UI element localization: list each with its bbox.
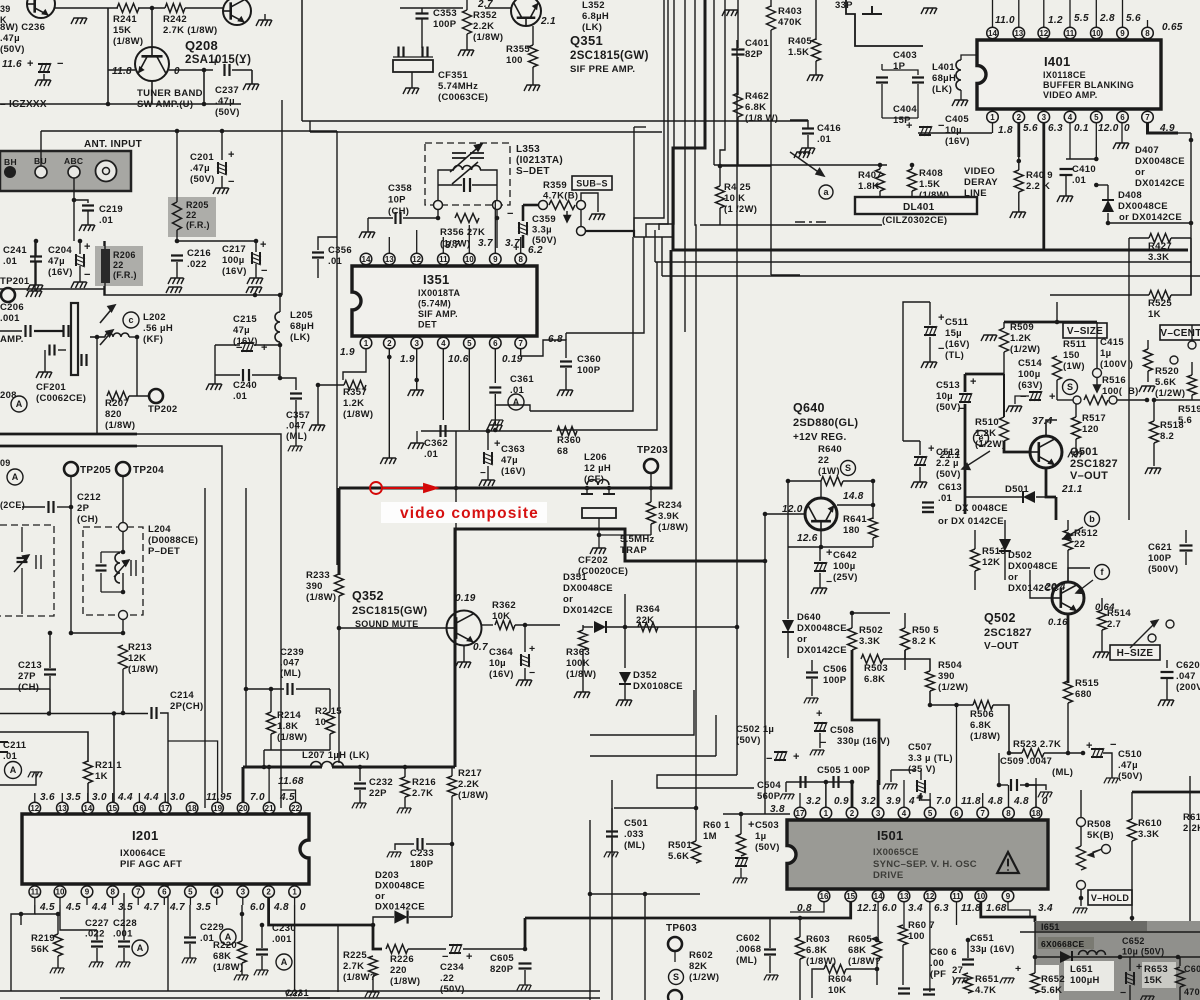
svg-text:(1/8W): (1/8W) bbox=[105, 420, 135, 431]
ground bbox=[1068, 452, 1082, 457]
wire bbox=[993, 705, 1009, 753]
wire thick right rail bbox=[1132, 791, 1200, 794]
wire bbox=[151, 81, 153, 104]
svg-text:+: + bbox=[261, 342, 268, 354]
svg-text:DERAY: DERAY bbox=[964, 177, 998, 188]
svg-text:C613: C613 bbox=[938, 482, 962, 493]
wire bbox=[1191, 325, 1193, 341]
wire block frame jog bbox=[846, 0, 923, 46]
pin 5 I201 bbox=[185, 886, 197, 898]
pot R359 wiper arrow bbox=[564, 211, 571, 222]
wire bbox=[34, 241, 36, 291]
red annotation text background bbox=[381, 502, 547, 523]
svg-text:+: + bbox=[748, 819, 755, 831]
svg-text:390: 390 bbox=[306, 581, 323, 592]
svg-text:R610: R610 bbox=[1138, 818, 1162, 829]
svg-text:10 K: 10 K bbox=[724, 193, 745, 204]
resistor R511 bbox=[1053, 356, 1062, 380]
trimmer cap in L353 bbox=[452, 153, 484, 158]
svg-text:(50V): (50V) bbox=[736, 735, 761, 746]
svg-text:TUNER BAND: TUNER BAND bbox=[137, 88, 203, 99]
svg-text:(16V): (16V) bbox=[48, 267, 73, 278]
resistor R362 bbox=[495, 621, 515, 630]
wire bbox=[1129, 957, 1131, 971]
resistor R364 bbox=[638, 623, 658, 632]
capacitor C214 bbox=[152, 707, 157, 719]
ground bbox=[403, 88, 419, 94]
junction bbox=[1094, 157, 1099, 162]
wire bbox=[463, 948, 525, 950]
svg-text:B): B) bbox=[1128, 386, 1139, 397]
svg-text:1.2K: 1.2K bbox=[343, 398, 364, 409]
pin 8 I501 bbox=[1003, 807, 1015, 819]
svg-text:−: − bbox=[1120, 987, 1126, 999]
wire bbox=[788, 480, 821, 482]
ground bbox=[574, 692, 590, 698]
svg-text:.001: .001 bbox=[113, 929, 133, 940]
wire pin stub bbox=[86, 898, 88, 905]
wire bbox=[480, 170, 497, 200]
wire bbox=[451, 767, 453, 776]
pin 11 I501 bbox=[951, 890, 963, 902]
svg-text:R363: R363 bbox=[566, 647, 590, 658]
svg-text:11: 11 bbox=[1066, 29, 1075, 38]
wire top rail bbox=[41, 130, 337, 132]
svg-text:10µ (50V): 10µ (50V) bbox=[1122, 947, 1164, 957]
svg-text:R604: R604 bbox=[828, 974, 852, 985]
wire bus vertical bbox=[713, 0, 715, 165]
svg-text:11: 11 bbox=[439, 255, 448, 264]
svg-text:A: A bbox=[281, 957, 288, 967]
svg-text:4.7K: 4.7K bbox=[975, 985, 996, 996]
svg-text:IX0018TA: IX0018TA bbox=[418, 288, 460, 298]
svg-text:.01: .01 bbox=[424, 449, 439, 460]
wire C403 frame bbox=[881, 64, 883, 70]
wire bbox=[903, 440, 920, 442]
svg-text:C360: C360 bbox=[577, 354, 601, 365]
svg-text:C507: C507 bbox=[908, 742, 932, 753]
svg-text:100µ: 100µ bbox=[833, 561, 856, 572]
wire thick Q501 emitter down bbox=[1055, 497, 1058, 520]
label SUB-S box bbox=[572, 176, 612, 190]
svg-text:TP201: TP201 bbox=[0, 276, 30, 287]
capacitor C620 bbox=[1161, 672, 1174, 678]
resistor R653 bbox=[1176, 967, 1185, 987]
wire pin11 branch bbox=[11, 905, 35, 991]
ceramic filter CF201 bbox=[71, 303, 78, 375]
wire bbox=[73, 200, 75, 241]
terminal circle bbox=[434, 201, 443, 210]
svg-text:14: 14 bbox=[988, 29, 997, 38]
wire bbox=[100, 552, 102, 563]
svg-text:(1W): (1W) bbox=[1063, 361, 1085, 372]
wire bbox=[740, 814, 742, 834]
svg-text:.47µ: .47µ bbox=[190, 163, 210, 174]
svg-text:+: + bbox=[466, 951, 473, 963]
svg-text:+12V REG.: +12V REG. bbox=[793, 432, 847, 443]
wire bbox=[122, 669, 124, 713]
capacitor C514 bbox=[1029, 391, 1042, 401]
pin 12 I501 bbox=[924, 890, 936, 902]
svg-text:A: A bbox=[16, 399, 23, 409]
svg-text:100P: 100P bbox=[577, 365, 601, 376]
svg-text:(50V): (50V) bbox=[190, 174, 215, 185]
svg-text:2P(CH): 2P(CH) bbox=[170, 701, 203, 712]
wire bbox=[411, 72, 413, 88]
svg-text:R242: R242 bbox=[163, 14, 187, 25]
wire bbox=[252, 374, 280, 376]
red annotation arrow bbox=[383, 484, 437, 492]
wire bbox=[255, 264, 257, 278]
wire bbox=[55, 7, 118, 9]
svg-text:5: 5 bbox=[928, 809, 933, 818]
capacitor C232 bbox=[354, 784, 366, 789]
svg-text:.01: .01 bbox=[938, 493, 953, 504]
junction bbox=[19, 912, 24, 917]
ground bbox=[359, 232, 375, 238]
wire bbox=[79, 266, 81, 282]
wire bbox=[122, 532, 124, 552]
wire bbox=[633, 127, 635, 237]
wire bbox=[1178, 132, 1191, 134]
wire bbox=[1171, 238, 1191, 295]
wire pin2 thick bbox=[269, 898, 338, 925]
svg-text:820P: 820P bbox=[490, 964, 514, 975]
svg-text:12.1: 12.1 bbox=[857, 903, 878, 914]
wire thick rail bbox=[0, 445, 137, 448]
svg-text:1µ: 1µ bbox=[1100, 348, 1111, 359]
wire bbox=[737, 0, 739, 48]
svg-text:R216: R216 bbox=[412, 777, 436, 788]
svg-text:(ML): (ML) bbox=[624, 840, 645, 851]
pin 9 I351 bbox=[490, 253, 502, 265]
svg-text:R504: R504 bbox=[938, 660, 962, 671]
svg-text:C514: C514 bbox=[1018, 358, 1042, 369]
svg-text:−: − bbox=[1020, 391, 1027, 403]
wire bbox=[368, 217, 393, 219]
svg-text:+: + bbox=[1086, 740, 1093, 752]
svg-text:6.8K: 6.8K bbox=[970, 720, 991, 731]
svg-text:5.5: 5.5 bbox=[1074, 13, 1089, 24]
junction bbox=[871, 503, 876, 508]
svg-text:SW AMP.(U): SW AMP.(U) bbox=[137, 99, 193, 110]
svg-text:R357: R357 bbox=[343, 387, 367, 398]
wire bbox=[1003, 322, 1005, 328]
wire bbox=[169, 69, 213, 71]
wire bbox=[891, 769, 916, 771]
ground bbox=[911, 482, 927, 488]
svg-text:b: b bbox=[1089, 514, 1095, 524]
wire bbox=[1075, 439, 1077, 452]
svg-text:0: 0 bbox=[174, 66, 180, 77]
svg-text:7: 7 bbox=[1145, 113, 1150, 122]
wire bbox=[189, 944, 191, 958]
junction bbox=[1017, 159, 1022, 164]
wire bbox=[719, 208, 721, 225]
wire bbox=[590, 893, 700, 895]
resistor R206 shaded box bbox=[95, 246, 143, 286]
wire R515 down bbox=[1067, 703, 1069, 753]
wire bbox=[580, 210, 582, 226]
pin 12 I351 bbox=[411, 253, 423, 265]
resistor R352 bbox=[463, 10, 472, 34]
svg-text:+: + bbox=[938, 312, 945, 324]
svg-text:560P: 560P bbox=[757, 791, 781, 802]
tuner ANT INPUT box bbox=[0, 151, 131, 191]
antenna connector bbox=[96, 161, 117, 182]
resistor R525 bbox=[1149, 291, 1171, 300]
capacitor C217 bbox=[251, 252, 261, 265]
junction bbox=[819, 545, 824, 550]
ground bbox=[309, 425, 325, 431]
svg-text:4.7: 4.7 bbox=[169, 902, 185, 913]
wire bbox=[999, 784, 1008, 786]
svg-text:68: 68 bbox=[557, 446, 568, 457]
svg-text:1: 1 bbox=[292, 888, 297, 897]
ground bbox=[1010, 212, 1026, 218]
pin 7 I351 bbox=[515, 337, 527, 349]
svg-text:15: 15 bbox=[846, 892, 855, 901]
svg-text:.047: .047 bbox=[280, 658, 300, 669]
svg-text:(1/8W): (1/8W) bbox=[277, 732, 307, 743]
wire thick L207 left bbox=[243, 766, 322, 769]
ground bbox=[213, 188, 229, 194]
capacitor C358 bbox=[396, 212, 401, 224]
svg-text:−: − bbox=[228, 176, 235, 188]
wire bbox=[232, 69, 252, 71]
svg-text:3.0: 3.0 bbox=[170, 792, 185, 803]
svg-text:6.3: 6.3 bbox=[934, 903, 949, 914]
svg-text:C605: C605 bbox=[490, 953, 514, 964]
wire pin16 bbox=[790, 902, 824, 912]
wire bbox=[176, 230, 178, 241]
junction bbox=[254, 239, 259, 244]
resistor R219 bbox=[54, 934, 63, 956]
junction bbox=[495, 216, 500, 221]
pin 3 I351 bbox=[411, 337, 423, 349]
svg-text:R359: R359 bbox=[543, 180, 567, 191]
junction bbox=[47, 711, 52, 716]
wire bbox=[811, 679, 813, 696]
wire dash-dot bbox=[795, 221, 826, 223]
pin 4 I501 bbox=[898, 807, 910, 819]
svg-text:(ML): (ML) bbox=[280, 668, 301, 679]
capacitor C229 bbox=[184, 938, 196, 943]
wire vertical bbox=[167, 719, 169, 991]
svg-text:R233: R233 bbox=[306, 570, 330, 581]
svg-text:6.8K: 6.8K bbox=[745, 102, 766, 113]
pin 12 I201 bbox=[29, 802, 41, 814]
junction bbox=[371, 923, 376, 928]
ground bbox=[246, 287, 262, 293]
capacitor C602 bbox=[764, 950, 776, 955]
svg-text:+: + bbox=[970, 376, 977, 388]
resistor R207 bbox=[107, 392, 129, 401]
wire rail bbox=[0, 103, 241, 105]
svg-text:11.0: 11.0 bbox=[995, 15, 1015, 26]
svg-text:2P: 2P bbox=[77, 503, 90, 514]
svg-text:+: + bbox=[228, 149, 235, 161]
junction bbox=[718, 164, 723, 169]
capacitor C211 plates bbox=[0, 742, 8, 752]
junction bbox=[69, 631, 74, 636]
wire bbox=[929, 302, 931, 325]
svg-text:3.9: 3.9 bbox=[886, 796, 901, 807]
IC I351 SIF amp det bbox=[352, 266, 537, 336]
svg-text:.001: .001 bbox=[272, 934, 292, 945]
pot R516 terminals bbox=[1073, 396, 1081, 404]
wire bbox=[799, 918, 801, 937]
wire bbox=[919, 467, 921, 482]
capacitor C357 bbox=[290, 394, 302, 399]
svg-text:(TL): (TL) bbox=[945, 350, 964, 361]
wire bbox=[1131, 792, 1133, 819]
wire bbox=[846, 968, 877, 970]
wire bbox=[421, 431, 438, 440]
wire bbox=[577, 430, 592, 431]
wire D203 left bbox=[373, 917, 394, 925]
svg-text:TP603: TP603 bbox=[666, 923, 697, 934]
svg-text:10: 10 bbox=[315, 717, 326, 728]
pin 14 I501 bbox=[872, 890, 884, 902]
wire bbox=[96, 337, 98, 396]
svg-text:(5.74M): (5.74M) bbox=[418, 299, 451, 309]
wire staircase to R360 bbox=[557, 262, 657, 430]
svg-text:(1/8W): (1/8W) bbox=[390, 976, 420, 987]
wire bbox=[740, 868, 742, 878]
ground bbox=[794, 152, 810, 158]
wire pin stub bbox=[34, 793, 36, 802]
svg-text:C213: C213 bbox=[18, 660, 42, 671]
wire bbox=[0, 330, 22, 332]
svg-text:Q640: Q640 bbox=[793, 401, 825, 415]
svg-text:I401: I401 bbox=[1044, 54, 1071, 69]
wire bbox=[799, 959, 801, 1000]
svg-text:DX0142CE: DX0142CE bbox=[375, 902, 425, 913]
svg-text:.01: .01 bbox=[233, 391, 248, 402]
resistor R515 bbox=[1064, 681, 1073, 703]
svg-text:4.7: 4.7 bbox=[143, 902, 159, 913]
svg-text:C509 .0047: C509 .0047 bbox=[1000, 756, 1052, 767]
svg-text:11.6: 11.6 bbox=[2, 59, 22, 70]
svg-text:D352: D352 bbox=[633, 670, 657, 681]
wire bbox=[771, 274, 800, 276]
svg-text:R362: R362 bbox=[492, 600, 516, 611]
svg-text:3.3K: 3.3K bbox=[1138, 829, 1159, 840]
junction bbox=[623, 625, 628, 630]
svg-text:680: 680 bbox=[1075, 689, 1092, 700]
svg-text:+: + bbox=[917, 791, 924, 803]
svg-text:11: 11 bbox=[31, 888, 40, 897]
junction bbox=[69, 505, 74, 510]
svg-text:C215: C215 bbox=[233, 314, 257, 325]
svg-text:(F.R.): (F.R.) bbox=[186, 220, 210, 230]
resistor R651 bbox=[964, 973, 973, 993]
junction bbox=[493, 428, 498, 433]
wire Q640 base vertical bbox=[764, 514, 766, 814]
svg-text:DRIVE: DRIVE bbox=[873, 870, 904, 881]
wire C507 top bbox=[920, 770, 922, 780]
wire bbox=[58, 349, 66, 351]
svg-text:11.8: 11.8 bbox=[112, 66, 132, 77]
capacitor C239 bbox=[288, 683, 293, 695]
capacitor C508 bbox=[814, 722, 827, 732]
svg-text:21.1: 21.1 bbox=[1061, 484, 1083, 495]
wire rail bbox=[104, 289, 282, 295]
junction bbox=[240, 912, 245, 917]
wire bbox=[1080, 827, 1082, 846]
capacitor C503 bbox=[735, 857, 748, 867]
wire block frame bottom bbox=[302, 120, 808, 122]
svg-text:−: − bbox=[239, 57, 246, 69]
svg-text:1: 1 bbox=[364, 339, 369, 348]
junction bbox=[121, 550, 126, 555]
resistor R523 bbox=[1022, 749, 1044, 758]
ground bbox=[807, 75, 823, 81]
ground bbox=[168, 278, 184, 284]
inductor L202 bbox=[105, 333, 129, 337]
svg-text:R4 25: R4 25 bbox=[724, 182, 751, 193]
svg-text:(200V: (200V bbox=[1176, 682, 1200, 693]
wire bbox=[0, 713, 148, 715]
pin 19 I201 bbox=[212, 802, 224, 814]
svg-text:R225: R225 bbox=[343, 950, 367, 961]
resistor R516 bbox=[1084, 396, 1108, 405]
svg-text:10K: 10K bbox=[828, 985, 846, 996]
wire to pin9 bbox=[496, 218, 498, 248]
svg-text:I351: I351 bbox=[423, 272, 450, 287]
junction bbox=[1079, 896, 1084, 901]
svg-text:3.3K: 3.3K bbox=[1148, 252, 1169, 263]
wire bbox=[1191, 362, 1193, 375]
svg-text:I501: I501 bbox=[877, 828, 904, 843]
svg-text:4.5: 4.5 bbox=[39, 902, 55, 913]
wire pin2 thick bbox=[1017, 123, 1020, 157]
svg-text:R213: R213 bbox=[128, 642, 152, 653]
wire bbox=[720, 165, 771, 167]
ground bbox=[408, 443, 424, 449]
svg-text:22: 22 bbox=[291, 804, 300, 813]
junction bbox=[1145, 398, 1150, 403]
wire to R363 bbox=[560, 624, 583, 626]
junction bbox=[763, 512, 768, 517]
resistor R355 bbox=[529, 45, 538, 67]
wire bbox=[903, 302, 930, 441]
capacitor C362 bbox=[441, 425, 446, 437]
wire bbox=[122, 712, 124, 714]
wire bbox=[905, 523, 945, 525]
svg-text:1.2: 1.2 bbox=[1048, 15, 1063, 26]
ground bbox=[256, 20, 272, 26]
capacitor C504 plates bbox=[801, 776, 806, 788]
pin 7 I201 bbox=[132, 886, 144, 898]
capacitor C234 bbox=[449, 944, 462, 954]
pin 13 I501 bbox=[898, 890, 910, 902]
svg-text:or DX0142CE: or DX0142CE bbox=[1119, 212, 1182, 223]
svg-text:1.8K: 1.8K bbox=[858, 181, 879, 192]
svg-text:D408: D408 bbox=[1118, 190, 1142, 201]
diode D352 bbox=[619, 672, 631, 684]
junction bbox=[735, 625, 740, 630]
svg-text:(16V): (16V) bbox=[945, 339, 970, 350]
resistor R427 bbox=[1149, 234, 1171, 243]
svg-text:(16V): (16V) bbox=[945, 136, 970, 147]
ground bbox=[616, 700, 632, 706]
wire bbox=[882, 70, 918, 75]
wire bbox=[614, 807, 696, 809]
resistor R226 bbox=[386, 945, 408, 954]
wire bbox=[929, 337, 931, 362]
